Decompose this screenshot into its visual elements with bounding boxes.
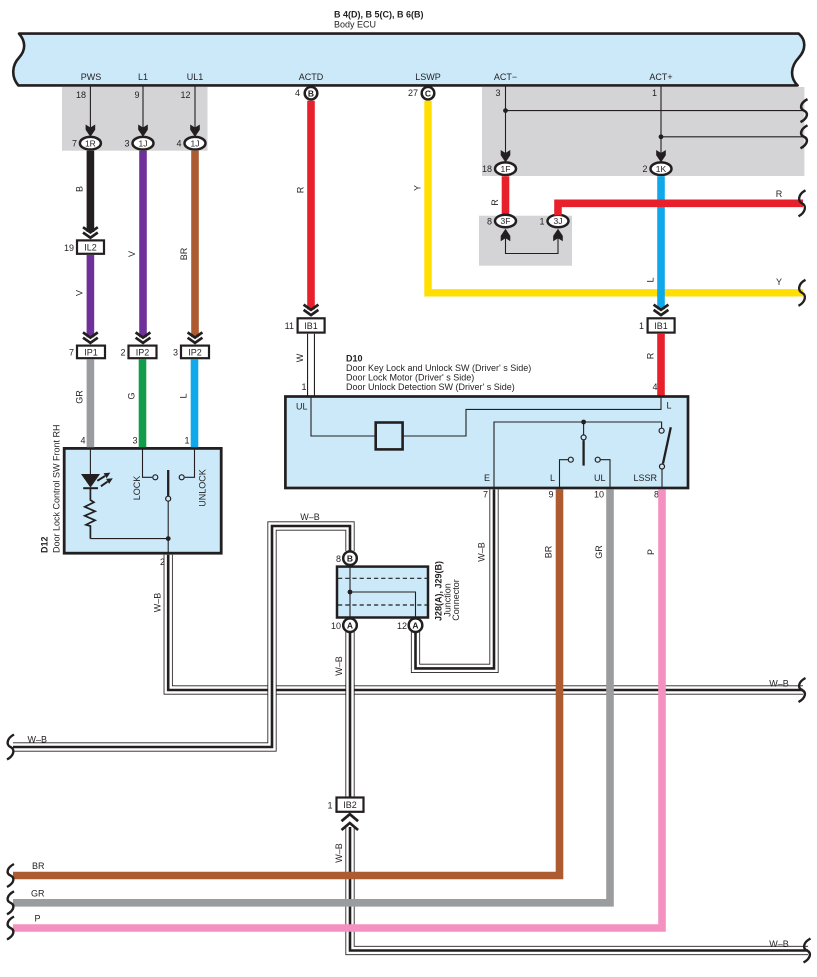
wire V violet IL2 to IP1 bbox=[87, 255, 95, 337]
svg-text:3F: 3F bbox=[501, 216, 511, 226]
svg-text:IB2: IB2 bbox=[343, 800, 357, 810]
connector oval 1R pin7 bbox=[80, 137, 101, 150]
junction connector pin B 8 bbox=[343, 551, 357, 565]
svg-text:L: L bbox=[550, 473, 555, 483]
wire W-B D12 pin2 to right break bbox=[168, 555, 803, 690]
arrow into IB1 bbox=[304, 305, 319, 316]
svg-text:1F: 1F bbox=[501, 164, 511, 174]
svg-text:4: 4 bbox=[295, 88, 300, 98]
node D12 bbox=[166, 536, 171, 541]
D10 switch common wire bbox=[494, 422, 662, 488]
connector IB2 pin1 bbox=[337, 798, 364, 812]
connector IP2 pin3 bbox=[181, 346, 209, 359]
svg-text:B: B bbox=[347, 553, 353, 563]
svg-text:ACT−: ACT− bbox=[494, 72, 517, 82]
wire ACT+ pin1 to 1K bbox=[660, 86, 662, 154]
svg-text:3J: 3J bbox=[554, 216, 563, 226]
svg-text:BR: BR bbox=[544, 545, 554, 558]
D10 unlock detection switch LSSR bbox=[659, 428, 664, 433]
break symbol left W-B y747 bbox=[7, 735, 14, 760]
connector oval 1K pin2 bbox=[651, 162, 672, 175]
svg-text:Y: Y bbox=[413, 185, 423, 191]
svg-text:GR: GR bbox=[594, 545, 604, 559]
node D10 switch bbox=[581, 420, 586, 425]
svg-text:Door Unlock Detection SW (Driv: Door Unlock Detection SW (Driver' s Side… bbox=[346, 382, 515, 392]
svg-text:7: 7 bbox=[483, 489, 488, 499]
svg-text:BR: BR bbox=[32, 861, 45, 871]
connector IP2 pin2 bbox=[129, 346, 157, 359]
wire GR gray lower run bbox=[13, 489, 610, 902]
svg-text:Body ECU: Body ECU bbox=[334, 20, 376, 30]
svg-text:UL: UL bbox=[594, 473, 606, 483]
svg-text:ACT+: ACT+ bbox=[649, 72, 672, 82]
svg-text:ACTD: ACTD bbox=[299, 72, 324, 82]
svg-text:1: 1 bbox=[301, 382, 306, 392]
svg-text:W–B: W–B bbox=[334, 843, 344, 863]
wire L1 pin9 to 1J bbox=[142, 86, 144, 128]
svg-text:BR: BR bbox=[179, 247, 189, 260]
svg-text:D10: D10 bbox=[346, 354, 363, 364]
wire B black 1R to IL2 bbox=[87, 151, 95, 232]
svg-text:W–B: W–B bbox=[769, 939, 789, 949]
junction connector J28(A) J29(B) bbox=[337, 561, 461, 621]
wire UL1 pin12 to 1J bbox=[194, 86, 196, 128]
break symbol right y110 bbox=[801, 99, 808, 122]
svg-text:8: 8 bbox=[336, 554, 341, 564]
break symbol left BR bbox=[7, 864, 14, 887]
svg-text:3: 3 bbox=[495, 88, 500, 98]
svg-text:V: V bbox=[75, 290, 85, 296]
svg-text:B 4(D), B 5(C), B 6(B): B 4(D), B 5(C), B 6(B) bbox=[334, 10, 424, 20]
svg-text:1: 1 bbox=[539, 217, 544, 227]
D10 UL contact bbox=[595, 457, 600, 462]
svg-text:2: 2 bbox=[120, 348, 125, 358]
svg-text:UL1: UL1 bbox=[187, 72, 204, 82]
svg-text:IP2: IP2 bbox=[188, 347, 202, 357]
svg-text:L: L bbox=[646, 277, 656, 282]
wire V violet 1J to IP2 bbox=[139, 151, 147, 337]
D12 LED lamp bbox=[89, 450, 91, 475]
D10 key switch blade bbox=[583, 422, 585, 435]
svg-text:V: V bbox=[127, 251, 137, 257]
junction connector pin A 10 bbox=[343, 618, 357, 632]
wire PWS pin18 to 1R bbox=[89, 86, 91, 128]
svg-text:W–B: W–B bbox=[769, 679, 789, 689]
wire BR brown lower run bbox=[13, 489, 560, 875]
svg-text:G: G bbox=[127, 392, 137, 399]
D12 lamp to switch wire bbox=[90, 538, 168, 540]
wire R red 3J to right break bbox=[558, 203, 803, 215]
svg-text:P: P bbox=[35, 914, 41, 924]
svg-text:1: 1 bbox=[652, 88, 657, 98]
wire W white IB1 to D10 pin1 bbox=[307, 334, 315, 397]
svg-text:9: 9 bbox=[548, 489, 553, 499]
break symbol right y137 bbox=[801, 125, 808, 148]
arrow into IP1 bbox=[83, 332, 98, 343]
svg-text:12: 12 bbox=[397, 621, 407, 631]
node on ACT- branch bbox=[503, 108, 508, 113]
wire ACT+ branch to right break bbox=[661, 136, 803, 138]
svg-text:11: 11 bbox=[285, 321, 294, 331]
door lock motor M bbox=[376, 423, 403, 450]
connector circle C at LSWP pin 27 bbox=[422, 87, 435, 100]
svg-text:GR: GR bbox=[31, 889, 45, 899]
gray shield box top-right bbox=[482, 87, 804, 176]
wire L blue 1K to IB1 bbox=[657, 176, 665, 309]
connector oval 3J pin1 bbox=[548, 215, 569, 228]
arrow into IP2 bbox=[136, 332, 151, 343]
junction connector pin A 12 bbox=[409, 618, 423, 632]
ECU pin labels bbox=[81, 72, 673, 82]
break symbol right Y bbox=[799, 280, 806, 306]
svg-text:A: A bbox=[412, 620, 418, 630]
D12 UNLOCK contact bbox=[185, 450, 195, 478]
ECU pin numbers bbox=[76, 88, 657, 100]
wire W-B IB2 to right break bbox=[350, 827, 808, 951]
svg-text:IL2: IL2 bbox=[84, 242, 97, 252]
svg-text:7: 7 bbox=[69, 348, 74, 358]
D12 Door Lock Control SW Front RH bbox=[40, 424, 222, 553]
wire W-B D10 E to junction connector pin12 bbox=[416, 489, 495, 668]
svg-text:L: L bbox=[667, 400, 672, 410]
wire Y yellow LSWP to right break bbox=[428, 101, 803, 293]
svg-text:W–B: W–B bbox=[477, 542, 487, 562]
wire R red ACTD to IB1 bbox=[307, 101, 315, 310]
svg-text:PWS: PWS bbox=[81, 72, 102, 82]
svg-text:Door Lock Control SW Front RH: Door Lock Control SW Front RH bbox=[52, 424, 62, 553]
arrow into IB2 bbox=[342, 814, 359, 830]
svg-text:W–B: W–B bbox=[28, 734, 48, 744]
D12 LOCK contact bbox=[143, 450, 153, 478]
svg-text:C: C bbox=[425, 88, 431, 98]
svg-text:4: 4 bbox=[176, 139, 181, 149]
svg-text:18: 18 bbox=[482, 164, 492, 174]
connector IL2 pin19 bbox=[77, 240, 104, 253]
wire P pink lower run bbox=[13, 489, 662, 928]
D10 motor circuit wire bbox=[311, 398, 661, 437]
connector oval 1J pin3 bbox=[133, 137, 154, 150]
svg-text:B: B bbox=[75, 186, 85, 192]
svg-text:E: E bbox=[484, 473, 490, 483]
svg-text:LSSR: LSSR bbox=[634, 473, 658, 483]
connector oval 1F pin18 bbox=[495, 162, 516, 175]
svg-text:D12: D12 bbox=[40, 536, 50, 553]
wire link 3F to 3J bbox=[506, 236, 559, 254]
junction connector dashed rows bbox=[338, 577, 427, 579]
break symbol right W-B y690 bbox=[799, 678, 806, 702]
arrow into IP2 bbox=[188, 332, 203, 343]
svg-text:R: R bbox=[296, 186, 306, 193]
svg-text:R: R bbox=[776, 189, 783, 199]
svg-text:1R: 1R bbox=[85, 138, 96, 148]
svg-text:1K: 1K bbox=[656, 164, 667, 174]
svg-text:L1: L1 bbox=[138, 72, 148, 82]
svg-text:1: 1 bbox=[327, 801, 332, 811]
svg-text:IB1: IB1 bbox=[654, 321, 668, 331]
junction connector internal wires bbox=[349, 567, 351, 618]
wire L blue IP2 to D12 pin1 bbox=[191, 359, 199, 447]
break symbol left P bbox=[7, 917, 14, 940]
svg-text:19: 19 bbox=[64, 243, 74, 253]
svg-text:1J: 1J bbox=[139, 138, 148, 148]
svg-text:12: 12 bbox=[180, 90, 190, 100]
svg-text:3: 3 bbox=[173, 348, 178, 358]
gray shield box 3F/3J bbox=[479, 216, 572, 266]
node on ACT+ branch bbox=[659, 134, 664, 139]
svg-text:1: 1 bbox=[639, 321, 644, 331]
wire W-B junction connector pin8 to left break bbox=[13, 526, 350, 747]
svg-text:7: 7 bbox=[72, 139, 77, 149]
D10 Door Key Lock and Unlock SW / Door Lock Motor / Door Unlock Detection SW bbox=[285, 354, 688, 488]
wire ACT- pin3 to 1F bbox=[505, 86, 507, 154]
svg-text:UNLOCK: UNLOCK bbox=[198, 469, 208, 507]
wire BR brown 1J to IP2 bbox=[191, 151, 199, 337]
D10 L contact bbox=[568, 457, 573, 462]
Body ECU band B4(D),B5(C),B6(B) bbox=[13, 10, 804, 86]
connector IB1 pin11 bbox=[298, 318, 325, 332]
arrow into IB1 right bbox=[654, 305, 669, 316]
svg-text:B: B bbox=[308, 88, 314, 98]
svg-text:4: 4 bbox=[652, 382, 657, 392]
svg-text:2: 2 bbox=[642, 164, 647, 174]
svg-text:LOCK: LOCK bbox=[132, 476, 142, 501]
wire G green IP2 to D12 pin3 bbox=[139, 359, 147, 447]
svg-text:R: R bbox=[490, 199, 500, 206]
svg-text:Y: Y bbox=[776, 277, 782, 287]
svg-text:IP1: IP1 bbox=[84, 347, 98, 357]
wire ACT- branch to right break bbox=[506, 110, 804, 112]
svg-text:P: P bbox=[646, 549, 656, 555]
svg-text:LSWP: LSWP bbox=[415, 72, 441, 82]
svg-text:UL: UL bbox=[296, 401, 308, 411]
break symbol right R bbox=[799, 190, 806, 216]
svg-text:3: 3 bbox=[132, 435, 137, 445]
svg-text:10: 10 bbox=[594, 489, 604, 499]
D12 switch blade bbox=[167, 470, 169, 496]
wire R red IB1 to D10 pin4 bbox=[657, 334, 665, 397]
svg-text:3: 3 bbox=[124, 139, 129, 149]
svg-text:Connector: Connector bbox=[451, 579, 461, 621]
svg-text:L: L bbox=[179, 393, 189, 398]
connector oval 3F pin8 bbox=[495, 215, 516, 228]
svg-text:W: W bbox=[295, 353, 305, 362]
connector circle B at ACTD pin 4 bbox=[305, 87, 318, 100]
svg-text:18: 18 bbox=[76, 90, 86, 100]
svg-text:10: 10 bbox=[331, 621, 341, 631]
svg-text:4: 4 bbox=[80, 435, 85, 445]
svg-text:R: R bbox=[646, 352, 656, 359]
arrow into IL2 bbox=[83, 227, 98, 238]
svg-text:1: 1 bbox=[184, 435, 189, 445]
svg-text:A: A bbox=[347, 620, 353, 630]
wire W-B junction connector pin10 to IB2 bbox=[345, 632, 354, 798]
svg-text:W–B: W–B bbox=[300, 512, 320, 522]
break symbol right W-B y950 bbox=[804, 939, 811, 963]
svg-text:W–B: W–B bbox=[334, 656, 344, 676]
svg-text:8: 8 bbox=[487, 217, 492, 227]
connector oval 1J pin4 bbox=[185, 137, 206, 150]
connector IP1 pin7 bbox=[77, 346, 105, 359]
svg-text:9: 9 bbox=[134, 90, 139, 100]
wire R red 1F to 3F bbox=[502, 176, 510, 215]
wire GR gray IP1 to D12 pin4 bbox=[87, 359, 95, 447]
gray shield box top-left bbox=[62, 87, 208, 151]
svg-text:27: 27 bbox=[408, 88, 418, 98]
svg-text:1J: 1J bbox=[191, 138, 200, 148]
svg-text:W–B: W–B bbox=[153, 593, 163, 613]
D12 resistor bbox=[85, 489, 95, 539]
svg-text:IB1: IB1 bbox=[304, 321, 318, 331]
svg-text:GR: GR bbox=[75, 390, 85, 404]
break symbol left GR bbox=[7, 891, 14, 914]
svg-text:IP2: IP2 bbox=[136, 347, 150, 357]
connector IB1 pin1 bbox=[648, 318, 675, 332]
